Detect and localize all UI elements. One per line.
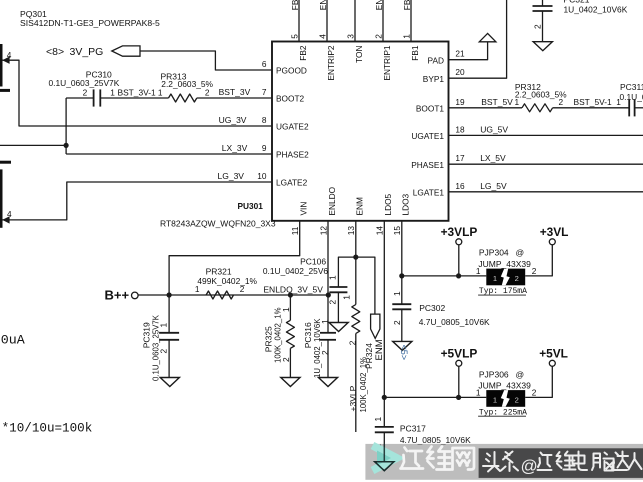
watermark dark bar [479,448,643,478]
svg-text:LGATE1: LGATE1 [413,187,445,197]
svg-text:PC302: PC302 [419,303,445,313]
svg-text:PGOOD: PGOOD [276,66,307,76]
svg-text:100K_0402_1%: 100K_0402_1% [273,307,282,363]
wire PR325 to ground [289,348,291,377]
wire PC311 to right edge [635,107,643,109]
wire PC310 to PR313 [100,97,168,99]
svg-text:2: 2 [392,320,402,325]
wire PR313 to BOOT2 pin 7 [197,97,272,99]
svg-text:2: 2 [515,396,519,405]
svg-text:LX_3V: LX_3V [222,143,248,153]
svg-text:1: 1 [342,295,352,300]
svg-text:PR325: PR325 [264,326,274,352]
wire PJP304 to +3VL [525,245,552,276]
svg-text:2: 2 [373,34,383,39]
wire pin 2 ENTRIP1 to top edge [382,0,384,42]
resistor PR324 body [352,305,360,334]
svg-text:10: 10 [257,171,267,181]
junction dot +5VLP [456,395,461,400]
svg-text:14: 14 [375,226,385,236]
svg-text:ENM: ENM [374,339,385,360]
svg-text:15: 15 [392,226,402,236]
svg-text:EN: EN [318,0,328,10]
watermark headline glyph ren [629,453,642,470]
watermark brand glyph wei [427,447,451,470]
ground for PC321 [533,42,552,51]
wire rail to PC316 [327,295,329,333]
svg-text:LDO5: LDO5 [383,193,393,215]
svg-text:12: 12 [318,226,328,236]
junction dot LDO5 node [382,395,387,400]
capacitor PC302 plates [392,303,411,305]
svg-text:1: 1 [158,88,163,98]
wire PQ301 pin4 to UG_3V corner [2,60,272,126]
wire LGATE1 pin 16 LG_5V to right edge [449,191,643,193]
wire +5VLP circle down [458,366,460,397]
wire 3V_PG to PGOOD pin 6 [140,51,272,70]
wire PR324 to +3VLP stub [355,334,357,433]
watermark headline glyph wei2 [557,452,576,470]
svg-text:FB1: FB1 [410,45,420,61]
off-page connector arrow 3V_PG (points left) [112,46,140,56]
svg-text:1U_0402_10V6K: 1U_0402_10V6K [564,4,628,14]
svg-text:2: 2 [240,284,245,294]
svg-text:2: 2 [159,349,169,354]
watermark gray bar [365,444,643,480]
svg-text:6: 6 [262,59,267,69]
wire PC319 to ground [168,340,170,378]
wire LDO5 pin 14 down to +5VLP rail [383,221,385,398]
transistor PQ301 lower drain stub [0,161,11,164]
svg-text:LG_5V: LG_5V [480,181,507,191]
svg-text:2: 2 [83,88,88,98]
wire +5VLP rail to PJP306 [384,396,486,398]
wire B++ to PC319 [168,295,170,333]
wire +3VLP circle down [458,245,460,276]
svg-text:ENM: ENM [355,197,365,216]
junction dot LX node [64,143,69,148]
svg-text:PAD: PAD [428,55,444,65]
ground redraw over watermark [383,444,385,462]
svg-text:1U_0402_10V6K: 1U_0402_10V6K [313,318,322,378]
wire PHASE1 pin 17 LX_5V to right edge [449,163,643,165]
svg-text:PJP306: PJP306 [479,369,509,379]
svg-text:17: 17 [455,153,465,163]
wire UGATE1 pin 18 UG_5V to right edge [449,134,643,136]
watermark brand glyph wang [453,448,475,470]
svg-text:BOOT1: BOOT1 [416,103,445,113]
svg-text:PC311: PC311 [620,82,643,92]
svg-text:20: 20 [455,67,465,77]
svg-text:FB: FB [290,0,300,10]
svg-text:@: @ [521,457,538,476]
connector circle +3VLP [456,239,462,245]
junction dot ENLDO pin12 node [326,292,331,297]
wire BOOT1 pin 19 to PR312 [449,107,523,109]
capacitor PC310 plates [93,89,95,106]
jumper PJP306 body [486,390,525,407]
wire PJP306 to +5VL [525,366,552,397]
svg-text:+3VL: +3VL [540,225,569,239]
svg-text:PR321: PR321 [206,266,232,276]
svg-text:4: 4 [317,34,327,39]
wire rail to PC302 [401,276,403,304]
svg-text:LX_5V: LX_5V [480,153,506,163]
capacitor PC321 plates [533,5,553,7]
svg-text:*10/10u=100k: *10/10u=100k [2,421,93,435]
svg-text:PC317: PC317 [400,424,426,434]
svg-text:JUMP_43X39: JUMP_43X39 [478,259,531,269]
svg-text:100K_0402_1%: 100K_0402_1% [359,357,368,413]
wire rail to PC317 [383,397,385,427]
svg-text:0.1U_0603_25V7K: 0.1U_0603_25V7K [49,78,120,88]
wire PC317 to ground [383,432,385,461]
wire PC106 to ground [337,292,339,322]
svg-text:BOOT2: BOOT2 [276,94,305,104]
svg-text:BYP1: BYP1 [423,74,445,84]
jumper PJP304 body [486,269,525,286]
svg-text:UG_5V: UG_5V [480,124,508,134]
junction dot B++ / VIN / PC319 [167,292,172,297]
svg-text:PC106: PC106 [300,257,326,267]
svg-text:BST_5V: BST_5V [481,97,513,107]
junction dot +3VLP [456,273,461,278]
wire VIN riser to pin 11 [169,221,300,295]
svg-text:18: 18 [455,124,465,134]
svg-text:1: 1 [195,284,200,294]
svg-text:LDO3: LDO3 [400,193,410,215]
ground for PC316 [318,378,337,387]
wire top edge to PC321 [542,0,544,6]
wire ENLDO to PR325 [289,295,291,320]
transistor PQ301 upper drain stub [0,89,10,92]
svg-text:2: 2 [533,24,543,29]
svg-text:PU301: PU301 [238,201,264,211]
capacitor PC317 plates [375,426,394,428]
transistor PQ301 upper source arrow [2,57,9,64]
svg-text:1: 1 [373,417,383,422]
svg-text:1: 1 [110,88,115,98]
capacitor PC316 plates [320,332,336,334]
connector circle B++ [132,292,139,299]
svg-text:ENTRIP2: ENTRIP2 [326,45,336,80]
wire BST_3V-1 left segment from LX vertical to PC310 [66,97,94,99]
wire LX_3V from left edge [0,144,66,146]
power arrow up on PAD net [479,33,496,41]
ground for PC317 [375,462,394,471]
transistor PQ301 upper body bar (clipped at left edge) [0,44,3,87]
svg-text:16: 16 [455,181,465,191]
connector circle +5VLP [456,360,462,366]
svg-text:1: 1 [159,323,169,328]
svg-text:PHASE1: PHASE1 [411,160,444,170]
wire PR312 to PC311 [553,107,630,109]
svg-text:ENLDO: ENLDO [327,186,337,215]
svg-text:19: 19 [455,97,465,107]
svg-text:BST_5V-1: BST_5V-1 [574,97,613,107]
svg-text:ENLDO_3V_5V: ENLDO_3V_5V [263,284,323,294]
svg-text:2: 2 [327,300,337,305]
op-amp U1: PWM controller IC PU301 body [272,42,449,221]
svg-text:1: 1 [616,97,621,107]
svg-text:PHASE2: PHASE2 [276,150,309,160]
svg-text:2: 2 [532,266,537,276]
svg-text:TON: TON [354,46,364,63]
watermark headline glyph tiao [501,452,518,472]
svg-text:LG_3V: LG_3V [218,171,245,181]
watermark headline glyph xun2 [538,453,552,471]
svg-text:FB2: FB2 [298,45,308,61]
svg-text:1: 1 [281,307,291,312]
svg-text:ENTRIP1: ENTRIP1 [382,45,392,80]
transistor PQ301 lower gate arrow [2,216,9,223]
svg-text:<8>: <8> [46,46,64,58]
svg-text:8: 8 [262,115,267,125]
svg-text:1: 1 [401,34,411,39]
svg-text:@: @ [516,247,525,257]
watermark headline glyph dian [573,452,588,471]
svg-text:VIN: VIN [299,202,309,216]
capacitor PC311 plates [628,99,630,116]
svg-text:PC316: PC316 [303,322,313,348]
wire pin 4 ENTRIP2 to top edge [326,0,328,42]
svg-text:BST_3V: BST_3V [219,87,251,97]
wire LX_3V to PHASE2 pin 9 [66,153,272,155]
svg-text:2: 2 [515,274,519,283]
resistor PR325 body [286,320,294,348]
svg-text:5: 5 [289,34,299,39]
wire pin 1 FB1 to top edge [410,0,412,42]
svg-text:EN: EN [374,0,384,10]
svg-text:13: 13 [346,226,356,236]
wire LDO3 pin 15 down to +3VLP rail [401,221,403,276]
resistor PR312 body [522,104,553,112]
svg-text:0.1U_0402_25V6: 0.1U_0402_25V6 [263,266,329,276]
wire ENLDO pin 12 down to rail [327,221,329,295]
svg-text:0.1U_06: 0.1U_06 [620,92,643,102]
svg-text:PC319: PC319 [141,322,151,348]
svg-text:2: 2 [559,97,564,107]
resistor PR313 body [169,94,197,102]
svg-text:1: 1 [476,388,481,398]
ground for PC106 [329,323,348,332]
svg-text:RT8243AZQW_WQFN20_3X3: RT8243AZQW_WQFN20_3X3 [160,219,276,229]
svg-text:2: 2 [320,350,330,355]
wire B++ main rail [138,294,328,296]
junction dot LDO3 node [399,273,404,278]
watermark headline glyph da [612,452,629,471]
wire pin 3 TON to top edge [354,0,356,42]
svg-text:+5VLP: +5VLP [441,347,478,361]
svg-text:+5VL: +5VL [539,347,568,361]
wire pin 5 FB2 to top edge [298,0,300,42]
transistor PQ301 lower body bar (clipped at left edge) [0,169,3,227]
svg-text:9: 9 [262,143,267,153]
svg-text:2: 2 [281,357,291,362]
svg-text:SIS412DN-T1-GE3_POWERPAK8-5: SIS412DN-T1-GE3_POWERPAK8-5 [20,18,160,28]
junction dot ENM node [353,255,358,260]
wire ENM node to ENM arrow [356,257,375,314]
svg-text:+3VLP: +3VLP [348,385,358,411]
svg-text:4: 4 [7,50,12,60]
svg-text:1: 1 [320,319,330,324]
svg-text:0uA: 0uA [1,332,25,347]
svg-text:@: @ [516,369,525,379]
ground for PR325 [281,378,300,387]
wire vertical LX node to PC310 and down to PHASE2 level [65,98,67,154]
watermark teal chevron logo [373,446,397,471]
off-page connector ENM (points down) [371,314,380,338]
svg-text:4.7U_0805_10V6K: 4.7U_0805_10V6K [400,435,471,445]
wire PC321 to ground [542,11,544,42]
wire +3VLP rail to PJP304 [402,275,487,277]
svg-text:B++: B++ [105,288,130,303]
svg-text:UG_3V: UG_3V [219,115,247,125]
svg-text:2: 2 [532,388,537,398]
svg-text:1: 1 [327,275,337,280]
svg-text:1: 1 [493,274,497,283]
connector circle +5VL [549,360,555,366]
capacitor PC106 plates [329,286,347,288]
svg-text:LGATE2: LGATE2 [276,178,308,188]
resistor PR321 body [206,291,233,299]
wire PC316 to ground [327,340,329,378]
wire PAD pin 21 [449,42,488,60]
wire ENM node down to PR324 [355,257,357,304]
svg-text:3: 3 [345,34,355,39]
svg-text:PJP304: PJP304 [479,247,509,257]
svg-text:2: 2 [205,88,210,98]
connector circle +3VL [549,239,555,245]
wire BYP1 pin 20 to top edge [449,0,507,78]
svg-text:1: 1 [476,266,481,276]
svg-text:21: 21 [455,49,465,59]
svg-text:3V_PG: 3V_PG [70,46,104,58]
svg-text:UGATE2: UGATE2 [276,122,309,132]
svg-text:UGATE1: UGATE1 [411,131,444,141]
svg-text:JUMP_43X39: JUMP_43X39 [478,381,531,391]
svg-text:1: 1 [493,396,497,405]
svg-text:+3VLP: +3VLP [441,225,478,239]
svg-text:7: 7 [262,87,267,97]
svg-text:4.7U_0805_10V6K: 4.7U_0805_10V6K [419,317,490,327]
ground for PC319 [160,378,179,387]
wire ENM pin 13 down [355,221,357,257]
svg-text:FB: FB [402,0,412,10]
wire PC302 to ground [401,309,403,341]
watermark brand glyph xun [401,448,424,469]
svg-text:1: 1 [392,291,402,296]
capacitor PC319 plates [159,332,179,334]
wire ENM node to PC106 [338,257,355,287]
svg-text:<5>: <5> [399,345,409,361]
svg-text:4: 4 [7,209,12,219]
svg-text:11: 11 [290,226,300,235]
watermark headline glyph tou [483,452,500,472]
junction dot PR325 node [288,292,293,297]
svg-text:BST_3V-1: BST_3V-1 [118,88,157,98]
ground for PC302 [393,341,412,350]
wire PQ301 lower pin4 to LGATE2 pin 10 [2,182,272,220]
svg-text:499K_0402_1%: 499K_0402_1% [197,276,257,286]
watermark headline glyph nao [592,453,614,471]
